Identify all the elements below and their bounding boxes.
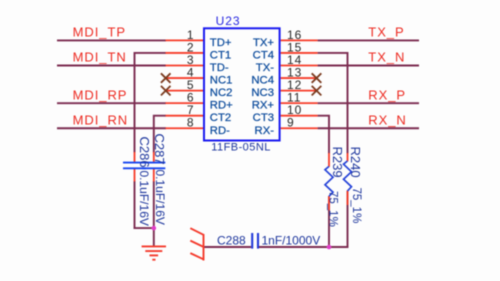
svg-text:TX_P: TX_P [368,25,404,40]
svg-text:RX_P: RX_P [368,87,406,102]
svg-text:0.1uF/16V: 0.1uF/16V [137,171,151,226]
svg-text:TX-: TX- [256,62,274,74]
svg-text:NC4: NC4 [251,75,274,87]
svg-text:R239: R239 [330,147,345,178]
svg-text:TX+: TX+ [253,37,274,49]
svg-text:TD-: TD- [210,62,229,74]
svg-text:C288: C288 [217,234,246,248]
svg-text:CT1: CT1 [210,49,231,61]
svg-text:CT2: CT2 [210,112,231,124]
svg-text:TX_N: TX_N [368,50,405,65]
svg-text:NC2: NC2 [210,87,233,99]
svg-text:CT3: CT3 [253,112,274,124]
svg-text:8: 8 [187,116,195,130]
svg-text:9: 9 [287,116,295,130]
svg-text:RD+: RD+ [210,100,233,112]
svg-text:TD+: TD+ [210,37,232,49]
svg-text:1nF/1000V: 1nF/1000V [262,234,321,248]
svg-text:MDI_TP: MDI_TP [73,25,126,40]
svg-text:RX-: RX- [255,125,275,137]
svg-text:MDI_RP: MDI_RP [73,87,128,102]
svg-text:C287: C287 [152,134,167,165]
svg-text:C286: C286 [137,137,152,168]
svg-text:NC1: NC1 [210,75,233,87]
svg-text:MDI_TN: MDI_TN [73,50,127,65]
svg-text:CT4: CT4 [253,49,274,61]
svg-text:11FB-05NL: 11FB-05NL [211,141,270,153]
svg-text:R240: R240 [348,147,363,178]
svg-text:MDI_RN: MDI_RN [73,112,129,127]
svg-text:U23: U23 [216,14,241,28]
svg-text:75_1%: 75_1% [350,188,362,224]
svg-text:RD-: RD- [210,125,230,137]
svg-text:RX+: RX+ [252,100,275,112]
svg-text:0.1uF/16V: 0.1uF/16V [153,170,167,225]
svg-text:RX_N: RX_N [368,112,406,127]
svg-text:NC3: NC3 [251,87,274,99]
svg-text:75_1%: 75_1% [327,191,339,227]
